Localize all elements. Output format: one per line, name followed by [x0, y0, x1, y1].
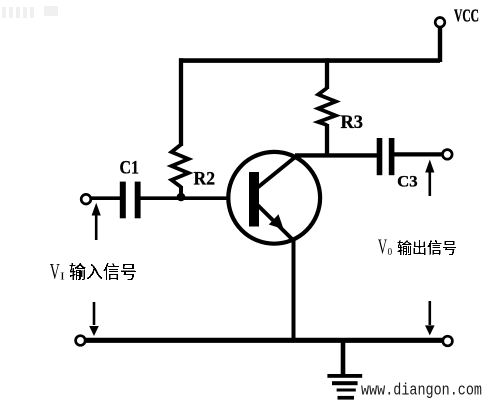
faint scan artifacts top-left — [2, 6, 58, 18]
svg-text:I: I — [60, 271, 65, 283]
label C1 — [120, 158, 140, 179]
arrow ground left down — [89, 302, 99, 336]
ground bars — [327, 374, 362, 400]
terminal input — [81, 194, 91, 204]
capacitor C3 — [377, 138, 395, 175]
wire C1 to base — [140, 196, 250, 200]
terminal ground right — [443, 336, 453, 346]
transistor Q1 body — [228, 152, 320, 244]
svg-text:V: V — [378, 235, 387, 259]
arrow input up — [92, 203, 101, 240]
label R2 — [194, 169, 216, 190]
transistor Q1 emitter stroke — [257, 205, 294, 241]
svg-text:V: V — [50, 258, 60, 283]
wire collector rail — [295, 153, 377, 157]
label output signal CJK — [397, 240, 456, 255]
resistor R2 — [172, 145, 189, 188]
ground stem — [341, 340, 346, 375]
label VCC — [454, 6, 479, 26]
wire VCC riser — [438, 26, 442, 62]
wire emitter down — [292, 239, 296, 341]
svg-text:VCC: VCC — [454, 6, 479, 26]
label VI — [50, 258, 65, 283]
transistor Q1 emitter arrowhead — [269, 214, 284, 229]
svg-text:R3: R3 — [341, 112, 364, 133]
wire R2 to base — [179, 186, 183, 196]
wire R3 to collector rail — [325, 124, 329, 157]
arrow output up — [425, 160, 434, 197]
watermark www.diangon.com — [361, 382, 482, 401]
arrow ground right down — [425, 301, 435, 335]
capacitor C1 — [120, 182, 141, 219]
label C3 — [397, 173, 418, 190]
resistor R3 — [318, 88, 336, 125]
wire top rail VCC — [179, 58, 440, 63]
label input signal CJK — [69, 263, 136, 280]
wire ground rail — [85, 338, 443, 343]
terminal output — [443, 150, 453, 160]
junction dot base node — [177, 193, 186, 202]
label R3 — [341, 112, 364, 133]
transistor Q1 base bar — [249, 172, 259, 227]
terminal ground left — [76, 336, 86, 346]
wire C3 to output — [394, 152, 443, 156]
wire input to C1 — [90, 196, 121, 200]
wire R2 branch vertical — [179, 58, 183, 146]
transistor Q1 collector stroke — [257, 156, 297, 188]
svg-text:0: 0 — [388, 247, 393, 258]
wire R3 riser — [325, 58, 329, 89]
svg-text:C3: C3 — [397, 173, 418, 190]
label VO — [378, 235, 392, 259]
svg-text:R2: R2 — [194, 169, 216, 190]
svg-text:C1: C1 — [120, 158, 140, 179]
svg-text:www.diangon.com: www.diangon.com — [361, 382, 482, 401]
terminal VCC — [435, 18, 445, 28]
